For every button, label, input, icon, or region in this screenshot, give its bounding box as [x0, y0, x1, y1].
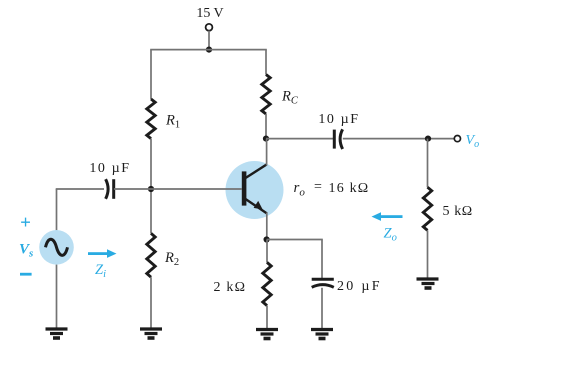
node output junction	[425, 136, 431, 142]
svg-text:Vo: Vo	[466, 133, 480, 150]
wire cap to Vo terminal	[343, 138, 454, 140]
wire collector node to output cap	[266, 138, 333, 140]
arrow Zi	[88, 249, 117, 258]
ground under R2	[140, 329, 162, 338]
svg-text:Vs: Vs	[19, 242, 33, 260]
node base junction	[148, 186, 154, 192]
wire left rail down to source	[56, 189, 58, 231]
capacitor 20uF	[312, 279, 334, 287]
wire R1 to base node	[150, 139, 152, 234]
wire R2 bottom lead	[150, 277, 152, 327]
wire RC to collector node	[265, 114, 267, 139]
svg-text:10 µF: 10 µF	[89, 161, 130, 176]
resistor RC	[262, 75, 270, 115]
source Vs sine wave	[46, 239, 68, 255]
wire source bottom lead	[56, 265, 58, 328]
transistor Q1 emitter arrowhead	[254, 201, 263, 210]
capacitor C1 10uF input	[106, 179, 114, 199]
svg-text:R2: R2	[164, 250, 179, 268]
terminal Vo circle	[454, 136, 460, 142]
wire RC top lead	[265, 50, 267, 75]
node emitter junction	[264, 236, 270, 242]
svg-text:ro: ro	[294, 180, 306, 199]
source Vs circle	[39, 230, 74, 265]
svg-text:2 kΩ: 2 kΩ	[214, 280, 247, 295]
svg-text:10 µF: 10 µF	[318, 112, 359, 127]
node collector junction	[263, 136, 269, 142]
wire emitter horizontal to bypass cap	[267, 239, 323, 241]
wire input cap to base	[114, 188, 242, 190]
svg-text:20 µF: 20 µF	[337, 279, 382, 294]
svg-text:RC: RC	[281, 89, 299, 107]
arrow Zo	[372, 212, 403, 221]
svg-text:R1: R1	[165, 113, 180, 131]
transistor Q1 collector line	[246, 165, 267, 179]
wire 2k top lead	[266, 240, 268, 263]
wire 5k top lead	[427, 139, 429, 188]
wire emitter vertical	[266, 213, 268, 240]
label minus	[20, 273, 32, 276]
ground under source	[46, 329, 68, 338]
svg-text:Zi: Zi	[95, 262, 106, 280]
resistor R2	[147, 233, 155, 277]
node Vcc junction	[206, 47, 212, 53]
ground under 20uF	[311, 330, 333, 339]
supply terminal circle	[206, 24, 213, 31]
transistor Q1 base bar	[242, 171, 247, 205]
ground under 2k	[256, 330, 278, 339]
transistor Q1 emitter line	[246, 199, 268, 214]
svg-text:+: +	[20, 213, 31, 234]
wire supply stub	[208, 31, 210, 50]
resistor R1	[147, 99, 155, 139]
svg-text:=: =	[314, 180, 322, 195]
wire 5k bottom lead	[427, 230, 429, 277]
svg-text:16 kΩ: 16 kΩ	[329, 181, 370, 196]
capacitor C2 10uF output	[334, 129, 342, 149]
wire 20uF bottom lead	[321, 288, 323, 328]
wire 2k bottom lead	[266, 306, 268, 328]
wire collector vertical into transistor	[266, 139, 268, 166]
svg-text:Zo: Zo	[384, 226, 397, 244]
wire 20uF top lead	[321, 240, 323, 279]
transistor Q1 highlight circle	[226, 161, 284, 219]
resistor 2 kOhm	[263, 262, 271, 305]
wire R1 top lead	[150, 50, 152, 99]
wire source to input cap	[56, 188, 104, 190]
ground under 5k	[417, 279, 439, 288]
resistor 5 kOhm	[423, 187, 431, 230]
svg-text:5 kΩ: 5 kΩ	[443, 204, 473, 219]
wire top rail	[150, 49, 267, 51]
svg-text:15 V: 15 V	[196, 6, 223, 21]
